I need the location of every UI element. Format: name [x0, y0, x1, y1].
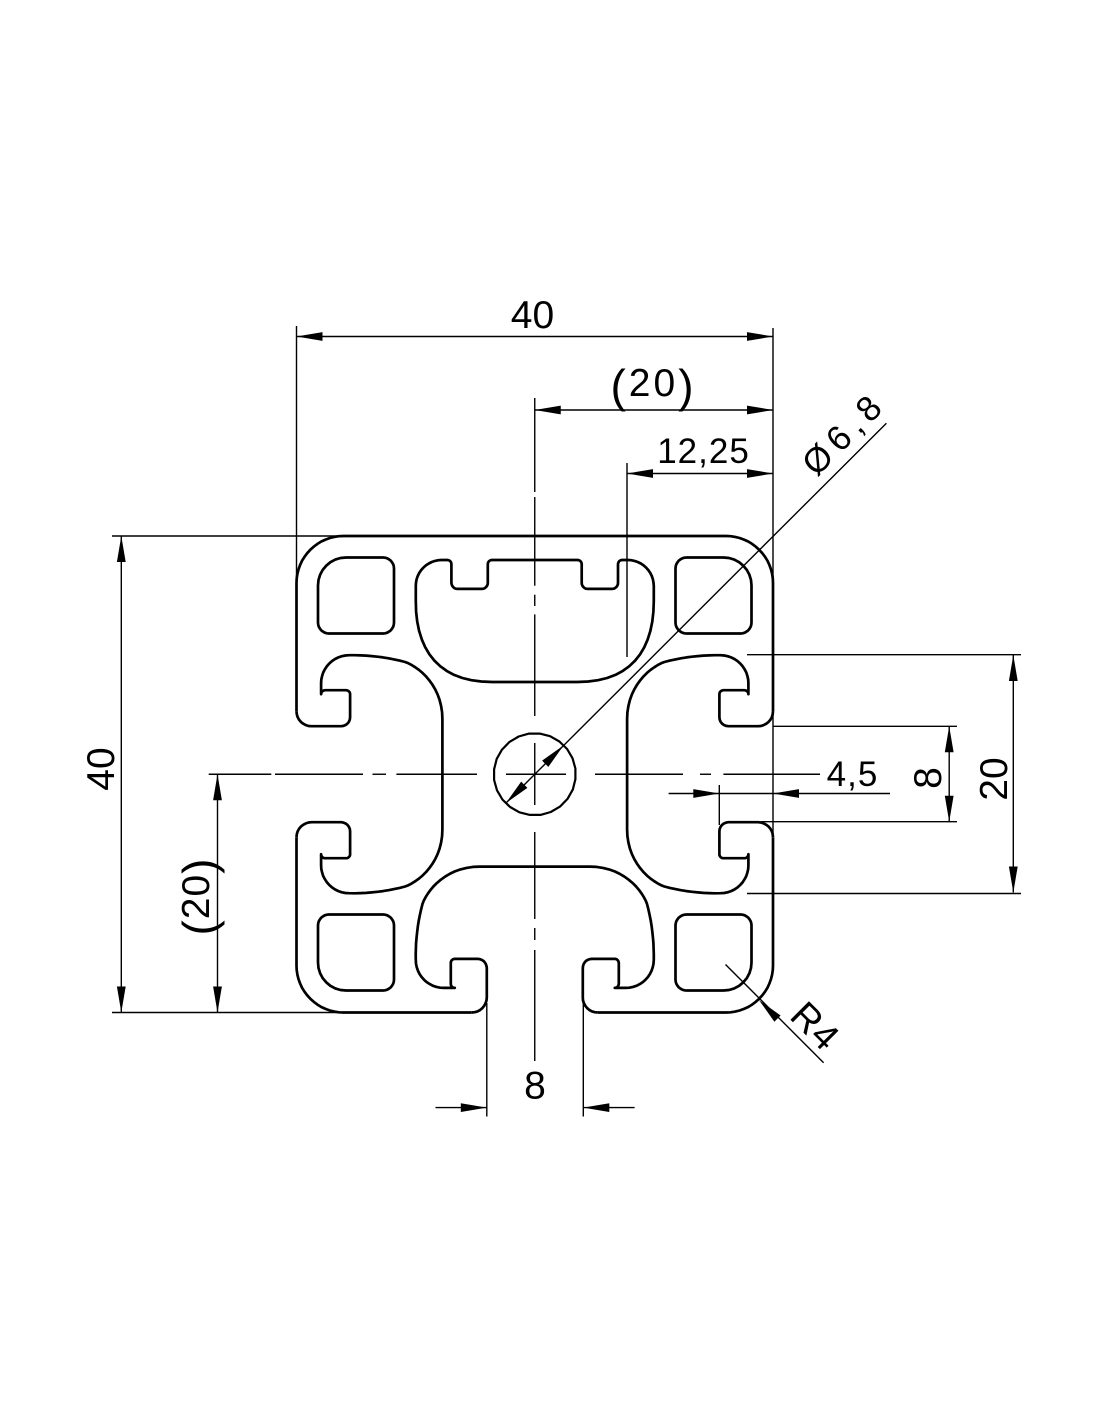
- svg-text:8: 8: [907, 767, 950, 789]
- dimension line 12,25: [627, 473, 773, 475]
- arrowhead (20) top right: [747, 406, 773, 415]
- svg-text:8: 8: [524, 1065, 546, 1108]
- arrowhead diameter 6,8 lower: [503, 782, 528, 807]
- svg-text:12,25: 12,25: [657, 432, 750, 471]
- arrowhead (20) left bottom: [213, 987, 222, 1013]
- extension line slot opening top (8 right): [773, 725, 957, 727]
- dimension line (20) left: [217, 774, 219, 1012]
- dimension line 4,5: [669, 793, 890, 795]
- arrowhead 8 right top: [945, 726, 954, 752]
- extension line lip edge (4,5): [718, 785, 720, 825]
- extension line right face (40 / 12,25 / 4,5): [772, 328, 774, 837]
- extension line cavity top (20 right): [747, 654, 1021, 656]
- svg-text:4,5: 4,5: [827, 755, 879, 794]
- vertical centerline (dash-dot): [534, 497, 536, 586]
- arrowhead 8 bottom left: [461, 1103, 487, 1112]
- leader line diameter 6,8: [506, 423, 887, 803]
- dimension line 8 right: [948, 726, 950, 821]
- svg-text:20: 20: [973, 757, 1016, 800]
- dimension line (20) top: [535, 409, 773, 411]
- bottom T-slot cavity (open slot): [416, 867, 654, 1013]
- horizontal centerline (dash-dot): [209, 773, 272, 775]
- leader line R4: [726, 965, 824, 1063]
- arrowhead 20 right bottom: [1009, 867, 1018, 893]
- extension line top face (40 left): [112, 535, 376, 537]
- arrowhead diameter 6,8 upper: [542, 742, 567, 767]
- arrowhead R4: [756, 997, 781, 1022]
- corner cavity top-left: [318, 558, 394, 634]
- extension line slot opening bottom (8 right): [761, 821, 957, 823]
- corner cavity bottom-right: [676, 915, 752, 991]
- arrowhead 4,5 left: [693, 789, 719, 798]
- top closed slot cavity with two break-off notches: [416, 560, 654, 682]
- profile outer contour: upper face U (left face upper, R4 corners, top face, right face upper): [297, 536, 774, 711]
- arrowhead 40 top left: [297, 332, 323, 341]
- dimension line 40 left: [120, 536, 122, 1013]
- right T-slot cavity (open slot): [627, 655, 773, 893]
- corner cavity top-right: [676, 558, 752, 634]
- dimension line 8 bottom right tail: [583, 1107, 634, 1109]
- extension line cavity bottom (20 right): [747, 893, 1021, 895]
- extension line left face (40 top): [296, 326, 298, 578]
- profile outer contour: right face lower + bottom-right R4 corner + bottom face right: [598, 837, 773, 1012]
- arrowhead 40 left bottom: [117, 987, 126, 1013]
- arrowhead 8 bottom right: [583, 1103, 609, 1112]
- extension line bottom face (40 left / (20) left): [112, 1012, 376, 1014]
- left T-slot cavity (open slot, 8 wide, 12.25 deep): [297, 655, 443, 893]
- arrowhead (20) left top: [213, 774, 222, 800]
- profile outer contour: bottom face left + bottom-left R4 corner + left face lower: [297, 837, 472, 1012]
- extension line center axis ((20) top): [534, 398, 536, 492]
- corner cavity bottom-left: [318, 915, 394, 991]
- svg-text:(20): (20): [173, 857, 225, 935]
- dimension line 40 top: [297, 336, 774, 338]
- extension line slot opening left (8 bottom): [486, 1003, 488, 1117]
- arrowhead (20) top left: [535, 406, 561, 415]
- arrowhead 40 top right: [747, 332, 773, 341]
- svg-text:40: 40: [511, 294, 554, 337]
- svg-text:40: 40: [80, 747, 123, 790]
- svg-text:Ø6,8: Ø6,8: [795, 384, 895, 484]
- arrowhead 8 right bottom: [945, 796, 954, 822]
- dimension line 8 bottom left tail: [436, 1107, 487, 1109]
- arrowhead 20 right top: [1009, 655, 1018, 681]
- extension line slot opening right (8 bottom): [582, 1003, 584, 1117]
- arrowhead 4,5 right: [773, 789, 799, 798]
- arrowhead 40 left top: [117, 536, 126, 562]
- center bore hole diameter 6.8: [494, 734, 575, 815]
- svg-text:(20): (20): [610, 360, 696, 412]
- svg-text:R4: R4: [782, 994, 847, 1059]
- extension line slot bottom (12,25): [626, 463, 628, 657]
- arrowhead 12,25 right: [747, 469, 773, 478]
- arrowhead 12,25 left: [627, 469, 653, 478]
- dimension line 20 right: [1012, 655, 1014, 893]
